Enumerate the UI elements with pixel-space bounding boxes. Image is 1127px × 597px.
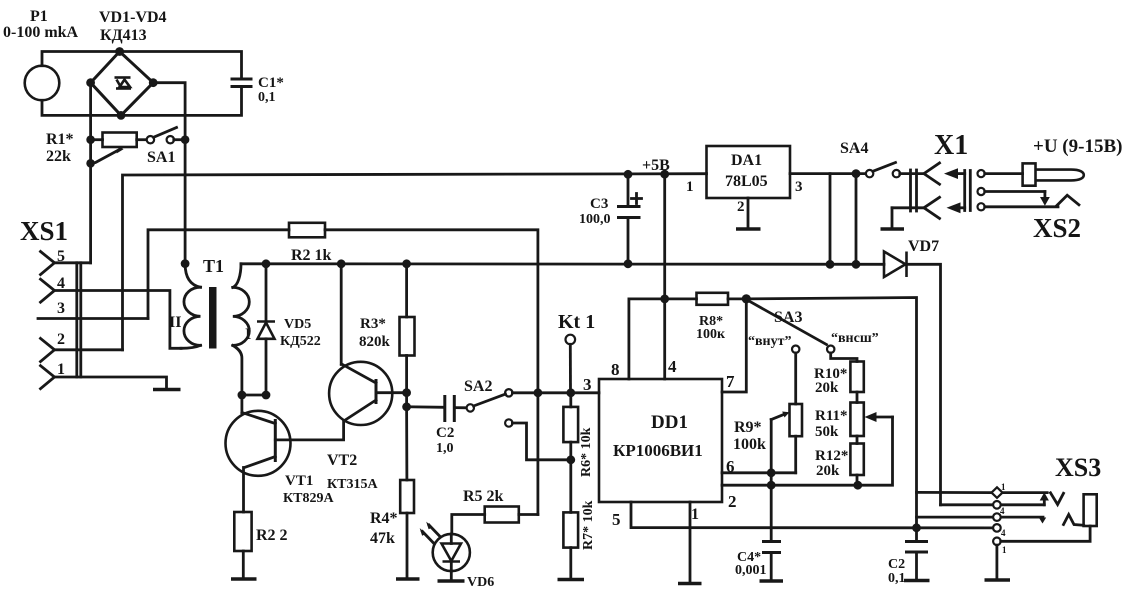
resistor R7 [563,460,596,579]
node R3 bottom / VT2 base [402,388,411,397]
svg-text:78L05: 78L05 [725,173,768,190]
node R3 top on rail [402,259,411,268]
wire XS2 bottom [985,205,1058,208]
svg-text:R9*: R9* [734,419,762,436]
node R1 wiper [86,159,95,168]
resistor R6 [563,393,594,477]
svg-text:0,1: 0,1 [888,571,906,586]
XS3 row A wire [917,491,992,494]
resistor R3 [359,264,415,393]
svg-text:1: 1 [686,179,694,195]
svg-text:100,0: 100,0 [579,212,611,227]
wire bridge right to SA1 vertical [153,83,185,264]
svg-text:7: 7 [726,372,735,391]
node pin3/R2-rail branch [534,388,543,397]
ground DA1 [736,227,761,230]
wire DD1 pin 2 [722,417,893,485]
svg-text:8: 8 [611,360,620,379]
wire DD1 pin 7 [722,299,746,392]
capacitor C2 1,0 [407,397,467,457]
svg-text:XS3: XS3 [1055,453,1101,482]
svg-text:XS1: XS1 [20,216,68,246]
resistor R2 1k [289,223,332,264]
resistor R8 [665,293,747,342]
wire DA1 pin2 to ground [747,198,750,228]
svg-text:3: 3 [795,179,803,195]
svg-text:C3: C3 [590,196,608,212]
node SA4 left [852,169,861,178]
ground X1 [881,227,905,230]
XS2 switch contact caret [1057,195,1079,206]
switch SA3 [748,301,879,353]
svg-text:1: 1 [1002,545,1007,555]
wire VT2 collector up to rail [340,264,343,365]
regulator DA1 78L05 [686,146,803,215]
wire circle E to ground [996,545,999,579]
wire VT2 base to node [376,391,407,394]
svg-text:DA1: DA1 [731,152,762,169]
svg-text:20k: 20k [816,463,840,479]
svg-text:КТ315А: КТ315А [327,477,378,492]
diode VD5 [257,264,321,395]
node bridge bottom [117,111,126,120]
resistor R2 2 [234,512,287,578]
wire SA4 node down to VD7 anode [855,174,858,265]
capacitor C2 0,1 [888,528,927,586]
svg-text:VD6: VD6 [467,575,494,590]
switch SA1 [147,128,185,167]
node bridge left [86,78,95,87]
node pin3/Kt1 [566,388,575,397]
svg-text:22k: 22k [46,148,71,165]
ground C2 0,1 [904,579,930,582]
svg-text:VD5: VD5 [284,317,311,332]
switch SA2 [464,378,513,427]
svg-text:“внсш”: “внсш” [831,331,879,346]
wire DD1 pin 8 [629,299,665,379]
wire VD7 cathode to XS3 row B [907,264,941,505]
svg-text:4: 4 [668,357,677,376]
svg-text:50k: 50k [815,424,839,440]
wire XS2 top to power plug [985,172,1023,175]
svg-text:R7* 10k: R7* 10k [581,500,596,550]
svg-text:SA4: SA4 [840,140,868,157]
svg-text:0-100 mkA: 0-100 mkA [3,24,79,41]
XS3 row C end arrow [1039,518,1046,524]
wire XS1 pin5 [55,261,91,264]
wire SA2 lower contact to R6/R7 node [512,423,570,460]
svg-text:1: 1 [1001,482,1006,492]
ground R2 2 [231,577,257,580]
svg-text:КТ829А: КТ829А [283,491,334,506]
svg-text:R3*: R3* [360,316,386,332]
svg-text:VT2: VT2 [327,452,357,469]
svg-text:R6* 10k: R6* 10k [579,427,594,477]
diode bridge VD1-VD4 [91,9,167,115]
XS3 body rect [1084,494,1097,526]
XS3 contact circle E [993,538,1001,546]
wire +5V rail (y=175) [123,174,707,350]
rail R2 (y=230) from XS1 pin3 [148,230,538,515]
XS3 row B wire [941,503,1045,506]
svg-text:0,001: 0,001 [735,563,767,578]
ground XS1 pin1 [153,388,181,391]
XS3 tiny contact numbers [1000,482,1007,555]
svg-text:“внут”: “внут” [748,334,792,349]
node DA1 pin3 on rail [826,260,835,269]
wire P1 bottom to C1 bottom rail [42,87,242,116]
svg-text:1,0: 1,0 [436,441,454,456]
wire pin7 node to XS3 row A [746,298,916,529]
svg-text:КД522: КД522 [280,334,321,349]
switch SA4 [830,140,900,177]
connector XS1 [20,216,81,377]
plug XS2 [944,168,1081,243]
svg-text:2: 2 [737,199,745,215]
wire DA1 pin3 down to supply rail [790,174,830,265]
XS3 contact diamond [992,487,1003,498]
node VD5 bottom [262,391,271,400]
capacitor C1 [232,75,284,105]
node SA1 right [181,135,190,144]
capacitor C3 [579,174,642,264]
node pin4 on +5V rail [660,170,669,179]
wire bridge left down to XS1 pin5 [89,83,92,263]
XS1 pin 5 [41,248,66,275]
node rail/XS3 branch [912,523,921,532]
supply rail y=264 (T1 to VD7) [241,262,884,265]
svg-text:VD1-VD4: VD1-VD4 [99,9,167,26]
svg-text:R12*: R12* [815,448,848,464]
power plug +U [1023,136,1123,186]
XS1 pin 1 [41,361,66,389]
T1 winding I (secondary) [233,264,250,395]
node pin2/C4 [767,481,776,490]
wire XS2 middle with arrow [985,192,1050,206]
node SA4 branch on rail [852,260,861,269]
svg-text:Kt 1: Kt 1 [558,311,595,333]
wire XS1 pin1 to ground [55,377,167,389]
wire node y=395 [242,394,266,397]
svg-text:VT1: VT1 [285,473,313,489]
XS3 contact circle B [993,501,1001,509]
ground DD1 pin1 [678,582,702,585]
svg-text:T1: T1 [203,256,224,276]
svg-text:SA1: SA1 [147,149,175,166]
node R8 right / SA3 common / pin7 [742,294,751,303]
svg-text:3: 3 [583,375,592,394]
test point Kt1 [558,311,595,393]
wire DD1 pin 6 [722,471,796,474]
ground R4 [396,577,420,580]
svg-text:5: 5 [612,510,621,529]
wire XS1 pin3 [38,317,148,320]
resistor R10 [814,362,864,403]
XS3 row C wire [917,516,1044,519]
wire node down to C2 row [405,393,408,407]
XS1 pin 3 [57,300,65,317]
svg-text:SA3: SA3 [774,309,802,326]
diode VD7 [884,238,939,277]
svg-text:КД413: КД413 [100,27,147,44]
svg-text:R2 2: R2 2 [256,527,288,544]
svg-text:R5 2k: R5 2k [463,488,504,505]
node T1 winding II top [181,259,190,268]
svg-text:2: 2 [57,331,65,348]
wire P1 top to C1 top rail [42,52,242,80]
resistor R4 [370,407,414,578]
R9 wiper [771,412,789,542]
node R6/R7 junction [566,455,575,464]
svg-text:0,1: 0,1 [258,90,276,105]
svg-text:C2: C2 [436,425,454,441]
node VD5 top [262,259,271,268]
svg-text:C2: C2 [888,557,905,572]
node pin4/pin8/R8 [660,295,669,304]
svg-text:DD1: DD1 [651,412,688,433]
LED VD6 [420,522,495,590]
svg-text:VD7: VD7 [908,238,939,255]
svg-text:II: II [169,314,181,331]
ground XS3 [985,578,1011,581]
XS3 row A continuation [1003,491,1048,494]
node C3 bottom on supply rail [624,259,633,268]
transformer T1 [169,256,251,349]
svg-text:1: 1 [57,361,65,378]
svg-text:SA2: SA2 [464,378,492,395]
resistor R5 2k [452,488,538,534]
resistor R1 [46,131,147,165]
node bridge right [149,78,158,87]
svg-text:100k: 100k [733,436,766,453]
node C2 branch [402,402,411,411]
XS3 row A switch V contact [1051,493,1064,505]
IC DD1 KR1006VI1 [599,379,722,502]
R11 wiper arrow [865,412,893,422]
XS3 row B arrow up [1040,492,1049,504]
svg-text:3: 3 [57,300,65,317]
ground R7 [558,578,585,581]
wire SA2 top contact to DD1 pin3 [512,391,599,394]
node R12 bottom on pin2 line [853,481,862,490]
ground VD6 [438,579,465,582]
transistor VT2 [275,362,392,492]
svg-text:4: 4 [1001,528,1006,538]
node pin6/wiper [767,468,776,477]
svg-text:820k: 820k [359,334,391,350]
svg-text:+U (9-15В): +U (9-15В) [1033,136,1122,157]
svg-text:1: 1 [691,506,699,523]
resistor R12 [815,444,864,486]
svg-text:X1: X1 [934,130,968,161]
svg-text:47k: 47k [370,530,395,547]
XS3 contact circle C [993,513,1001,521]
T1 winding II (primary) [181,264,201,349]
transistor VT1 [226,395,335,512]
svg-text:2: 2 [728,492,737,511]
wire XS1 pin2 [55,348,123,351]
resistor R11 [815,403,864,444]
ground C4 [760,579,784,582]
wire XS1 pin4 to T1 winding II bottom [55,291,182,349]
svg-text:4: 4 [1000,506,1005,516]
XS3 contact circle D [993,524,1001,532]
resistor R9 [733,353,802,473]
XS3 row C switch caret [1064,515,1084,526]
svg-text:P1: P1 [30,8,48,25]
wire SA3 vnsh contact to R10 [831,353,857,362]
wire DD1 pin 4 up to +5V [663,174,666,379]
connector X1 [892,130,968,228]
wire DD1 pin 5 rail [631,502,993,528]
XS1 pin 4 [41,275,66,302]
node R1 left [86,135,95,144]
XS3 row E wire to body rect [1001,526,1090,541]
capacitor C4 [735,542,780,581]
svg-text:R1*: R1* [46,131,74,148]
node VT2 collector on rail [337,259,346,268]
svg-text:R11*: R11* [815,408,848,424]
XS1 pin 2 [41,331,66,362]
node T1-I bottom / VT1 collector [238,391,247,400]
wire DD1 pin 1 to ground [689,502,692,583]
svg-text:R2 1k: R2 1k [291,247,332,264]
node C3 top on +5V rail [624,170,633,179]
meter P1 [3,8,79,100]
R1 wiper arm [91,146,124,163]
svg-text:КР1006ВИ1: КР1006ВИ1 [613,441,703,460]
svg-text:20k: 20k [815,380,839,396]
svg-text:C1*: C1* [258,75,284,91]
svg-text:R4*: R4* [370,510,398,527]
svg-text:100к: 100к [696,327,726,342]
svg-text:XS2: XS2 [1033,213,1081,243]
node bridge top [115,47,124,56]
